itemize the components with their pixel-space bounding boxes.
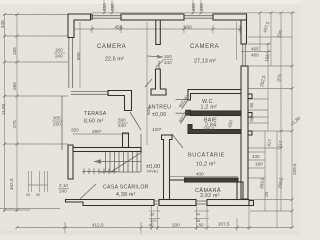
svg-text:480: 480 xyxy=(199,3,204,11)
svg-text:27,13 m²: 27,13 m² xyxy=(194,59,216,65)
svg-text:500: 500 xyxy=(76,52,81,60)
svg-text:480: 480 xyxy=(110,3,115,11)
svg-text:25: 25 xyxy=(26,193,30,197)
svg-text:240: 240 xyxy=(59,189,67,194)
svg-text:150: 150 xyxy=(164,54,172,59)
svg-text:250: 250 xyxy=(53,122,61,127)
svg-text:480: 480 xyxy=(251,53,259,58)
svg-text:4,38 m²: 4,38 m² xyxy=(116,192,136,198)
svg-text:1,2 m²: 1,2 m² xyxy=(201,105,218,111)
svg-text:450: 450 xyxy=(115,25,123,30)
svg-text:460: 460 xyxy=(184,25,192,30)
svg-text:40: 40 xyxy=(196,213,200,217)
svg-text:412,5: 412,5 xyxy=(92,223,104,228)
svg-text:275: 275 xyxy=(12,120,17,128)
svg-text:±0,00: ±0,00 xyxy=(152,112,166,118)
svg-text:40: 40 xyxy=(149,223,155,228)
svg-text:165: 165 xyxy=(12,47,17,55)
svg-text:96: 96 xyxy=(249,116,254,122)
svg-text:400: 400 xyxy=(196,172,204,177)
svg-text:90: 90 xyxy=(36,193,40,197)
svg-text:20: 20 xyxy=(264,191,269,197)
svg-text:CAMERA: CAMERA xyxy=(190,44,219,50)
svg-text:160: 160 xyxy=(55,48,63,53)
svg-text:305: 305 xyxy=(53,116,61,121)
svg-text:430: 430 xyxy=(252,154,260,159)
svg-text:240: 240 xyxy=(164,60,172,65)
svg-text:11,50: 11,50 xyxy=(1,103,6,115)
svg-text:120⁵: 120⁵ xyxy=(152,127,162,132)
svg-text:38: 38 xyxy=(196,219,200,223)
svg-text:CASA SCĂRILOR: CASA SCĂRILOR xyxy=(103,184,149,191)
svg-text:240: 240 xyxy=(118,123,126,128)
svg-text:290⁵: 290⁵ xyxy=(92,129,102,134)
svg-text:465: 465 xyxy=(251,47,259,52)
svg-text:342,5: 342,5 xyxy=(9,178,14,190)
svg-text:590: 590 xyxy=(118,118,126,123)
svg-text:445: 445 xyxy=(0,20,5,28)
svg-text:60: 60 xyxy=(199,223,205,228)
svg-text:10,2 m²: 10,2 m² xyxy=(196,162,216,168)
svg-text:209,5: 209,5 xyxy=(292,163,297,175)
svg-text:3,92 m²: 3,92 m² xyxy=(200,193,220,199)
svg-text:8,60 m²: 8,60 m² xyxy=(84,119,104,125)
svg-text:200: 200 xyxy=(172,223,180,228)
svg-text:NIVEL: NIVEL xyxy=(147,170,159,174)
svg-text:TERASA: TERASA xyxy=(84,111,107,117)
svg-text:296,5: 296,5 xyxy=(203,127,215,132)
svg-text:450: 450 xyxy=(102,3,107,11)
svg-text:250: 250 xyxy=(71,128,79,133)
svg-text:269,5: 269,5 xyxy=(259,177,265,189)
svg-text:500: 500 xyxy=(146,107,151,115)
svg-text:38: 38 xyxy=(150,213,154,217)
svg-text:180: 180 xyxy=(255,162,263,167)
svg-text:207,5: 207,5 xyxy=(218,222,230,227)
svg-text:BUCĂTĂRIE: BUCĂTĂRIE xyxy=(188,152,225,159)
svg-text:240: 240 xyxy=(55,54,63,59)
svg-text:22,5 m²: 22,5 m² xyxy=(105,57,124,63)
svg-text:90: 90 xyxy=(249,102,254,108)
svg-text:460: 460 xyxy=(191,3,196,11)
svg-text:ANTREU: ANTREU xyxy=(148,105,171,111)
svg-text:260: 260 xyxy=(12,82,17,90)
svg-text:2,10: 2,10 xyxy=(59,183,68,188)
svg-text:CAMERA: CAMERA xyxy=(97,44,126,50)
svg-text:420: 420 xyxy=(150,219,156,223)
